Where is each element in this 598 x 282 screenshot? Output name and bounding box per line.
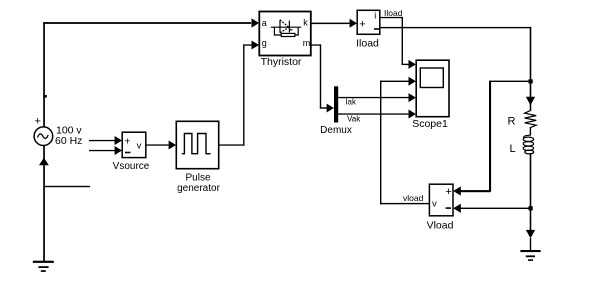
wire demux output 1 (Iak) to scope input 3 (338, 93, 416, 102)
svg-text:Vsource: Vsource (113, 161, 150, 172)
svg-text:m: m (303, 38, 311, 48)
wire demux output 2 (Vak) to scope input 4 (338, 110, 416, 119)
wire arrow to ground stub (530, 238, 531, 251)
svg-text:Pulse: Pulse (185, 173, 210, 184)
label 100 v 60 Hz (55, 125, 82, 147)
label Pulse generator (177, 173, 220, 194)
arrowhead down into R (526, 97, 535, 105)
wire Vload output to scope input 2 (380, 77, 430, 205)
ground G2 (right) (520, 250, 540, 261)
wire thyristor k to Iload plus (311, 19, 357, 28)
demux block (334, 86, 338, 122)
svg-text:v: v (137, 141, 142, 152)
wire Iload minus output to RL branch top (380, 27, 531, 28)
wire Iload i output to scope input 1 (380, 17, 416, 69)
wire into Vsource minus input (89, 146, 122, 155)
wire Vsource output to pulse generator (146, 141, 176, 150)
svg-text:Thyristor: Thyristor (261, 56, 302, 68)
svg-text:Iload: Iload (384, 8, 403, 18)
node junction at bottom tap (529, 206, 533, 210)
wire tap to Vload plus (thick) (453, 81, 530, 196)
thyristor block U1 (259, 12, 311, 56)
svg-text:+: + (124, 135, 130, 147)
svg-text:+: + (35, 116, 41, 128)
svg-text:Iload: Iload (356, 38, 379, 50)
resistor R (525, 111, 537, 128)
wire top from source node to thyristor anode (43, 18, 259, 27)
svg-text:v: v (432, 198, 437, 209)
svg-text:generator: generator (177, 183, 220, 194)
ground G1 (left) (33, 261, 54, 272)
svg-text:k: k (303, 18, 308, 28)
svg-text:Vload: Vload (427, 220, 454, 232)
inductor L (523, 135, 534, 154)
pulse generator block (176, 121, 218, 168)
svg-text:R: R (508, 116, 516, 128)
svg-text:L: L (510, 143, 516, 155)
wire main vertical RL branch (530, 27, 532, 111)
arrowhead up into source bottom (39, 158, 49, 166)
wire thyristor m to demux (311, 44, 334, 112)
svg-text:+: + (445, 186, 451, 198)
svg-text:+: + (359, 18, 365, 30)
wire L to bottom node (530, 153, 532, 231)
AC source Vs (100 V 60 Hz) (34, 127, 53, 146)
svg-text:Iak: Iak (345, 97, 357, 106)
svg-text:Demux: Demux (320, 125, 352, 136)
svg-text:vload: vload (403, 193, 424, 203)
thyristor icon (271, 20, 301, 37)
svg-text:Scope1: Scope1 (412, 118, 448, 130)
wire bottom node to Vload minus (453, 204, 530, 213)
current measurement Iload (357, 10, 380, 34)
voltage measurement Vload (429, 184, 453, 216)
wire left vertical upper (source top to corner) (43, 22, 45, 127)
svg-text:i: i (374, 11, 376, 21)
svg-text:60 Hz: 60 Hz (55, 135, 82, 147)
wire pulse generator output to thyristor gate (219, 41, 259, 146)
wire left vertical lower (source bottom to ground) (43, 146, 45, 261)
voltage measurement Vsource (122, 132, 146, 157)
svg-text:g: g (262, 38, 267, 48)
scope block Scope1 (416, 60, 449, 116)
node junction at top tap (529, 79, 533, 83)
svg-text:Vak: Vak (347, 114, 361, 123)
node small junction nub on left vertical (43, 95, 47, 98)
wire between R and L (530, 127, 531, 136)
arrowhead down into ground (526, 230, 535, 238)
wire stub tap toward Vsource minus (44, 186, 91, 187)
wire into Vsource plus input (89, 136, 122, 145)
svg-text:a: a (262, 18, 267, 28)
